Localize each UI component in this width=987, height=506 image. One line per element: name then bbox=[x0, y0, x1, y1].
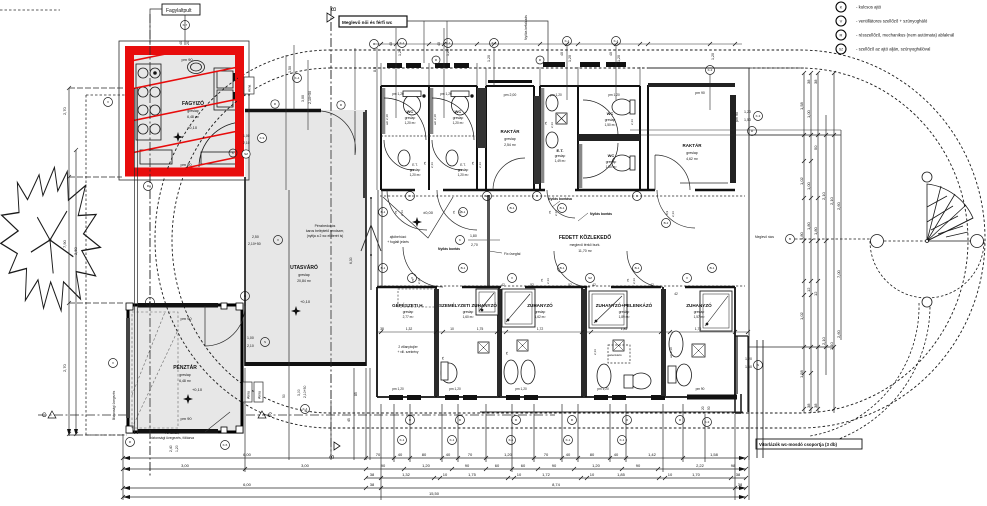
svg-text:K-4: K-4 bbox=[303, 407, 308, 411]
svg-text:1,70: 1,70 bbox=[692, 472, 701, 477]
svg-text:K: K bbox=[459, 238, 461, 242]
svg-text:pm 1,20: pm 1,20 bbox=[392, 92, 404, 96]
svg-text:greslap: greslap bbox=[555, 154, 566, 158]
svg-text:ajtóbehúzó: ajtóbehúzó bbox=[390, 235, 407, 239]
svg-text:40: 40 bbox=[446, 452, 451, 457]
svg-text:am 2,10: am 2,10 bbox=[669, 347, 673, 358]
svg-text:1,70: 1,70 bbox=[695, 327, 702, 331]
svg-text:2,13: 2,13 bbox=[417, 278, 421, 284]
svg-text:Fix üvegfal: Fix üvegfal bbox=[504, 252, 521, 256]
svg-text:pm 90: pm 90 bbox=[180, 316, 192, 321]
svg-text:50: 50 bbox=[707, 406, 711, 410]
svg-text:Fagylaltpult: Fagylaltpult bbox=[166, 8, 192, 14]
svg-text:V: V bbox=[686, 276, 688, 280]
svg-text:2,10: 2,10 bbox=[829, 341, 834, 350]
svg-text:1,20 m²: 1,20 m² bbox=[458, 173, 469, 177]
svg-text:biztonsági üvegezés, fóliázva: biztonsági üvegezés, fóliázva bbox=[150, 436, 194, 440]
svg-text:greslap: greslap bbox=[298, 273, 310, 277]
svg-text:1,00: 1,00 bbox=[806, 181, 811, 190]
svg-text:- szellőző az ajtó alján, szú: - szellőző az ajtó alján, szúnyoghálóval bbox=[856, 47, 930, 52]
svg-text:greslap: greslap bbox=[179, 373, 191, 377]
svg-text:2,10: 2,10 bbox=[247, 344, 254, 348]
svg-text:76: 76 bbox=[626, 278, 630, 282]
svg-text:pm 1,20: pm 1,20 bbox=[440, 92, 452, 96]
svg-text:S: S bbox=[757, 363, 759, 367]
svg-text:2,10: 2,10 bbox=[821, 336, 826, 345]
svg-text:2,13: 2,13 bbox=[400, 210, 404, 216]
svg-text:20: 20 bbox=[701, 406, 705, 410]
svg-text:greslap: greslap bbox=[405, 116, 416, 120]
svg-text:B: B bbox=[244, 294, 246, 298]
svg-text:E.T.: E.T. bbox=[460, 163, 466, 167]
svg-text:75: 75 bbox=[441, 356, 445, 360]
svg-text:38: 38 bbox=[806, 79, 811, 84]
svg-text:2,10: 2,10 bbox=[243, 141, 250, 145]
svg-text:K-1: K-1 bbox=[620, 438, 625, 442]
svg-text:K: K bbox=[232, 151, 234, 155]
svg-text:Akna: Akna bbox=[247, 391, 251, 399]
svg-text:(nyitja a 2 wc előterét is): (nyitja a 2 wc előterét is) bbox=[307, 234, 344, 238]
svg-text:76: 76 bbox=[452, 210, 456, 214]
svg-text:1,20: 1,20 bbox=[487, 55, 491, 62]
svg-text:ZUHANYZÓ: ZUHANYZÓ bbox=[527, 301, 553, 308]
svg-text:K-1: K-1 bbox=[509, 438, 514, 442]
svg-text:K-2: K-2 bbox=[492, 41, 497, 45]
svg-text:greslap: greslap bbox=[686, 151, 698, 155]
svg-text:±0,00: ±0,00 bbox=[423, 210, 434, 215]
svg-text:15,50: 15,50 bbox=[429, 491, 440, 496]
svg-text:10: 10 bbox=[517, 472, 522, 477]
svg-text:S: S bbox=[264, 340, 266, 344]
svg-text:V: V bbox=[636, 194, 638, 198]
svg-text:1,32: 1,32 bbox=[402, 472, 411, 477]
svg-text:R: R bbox=[840, 33, 843, 38]
svg-text:WC: WC bbox=[455, 109, 462, 114]
svg-text:K-1: K-1 bbox=[400, 41, 405, 45]
svg-text:K-1: K-1 bbox=[400, 438, 405, 442]
svg-text:2,10+50: 2,10+50 bbox=[248, 242, 261, 246]
svg-text:1,85: 1,85 bbox=[617, 472, 626, 477]
svg-text:ZUHANYZÓ: ZUHANYZÓ bbox=[686, 301, 712, 308]
svg-text:pm 1,20: pm 1,20 bbox=[392, 387, 404, 391]
svg-text:K-3: K-3 bbox=[708, 68, 713, 72]
svg-text:42: 42 bbox=[501, 283, 505, 287]
svg-text:2,10: 2,10 bbox=[821, 191, 826, 200]
svg-text:75: 75 bbox=[423, 161, 427, 165]
svg-text:50: 50 bbox=[813, 145, 818, 150]
svg-text:1,57 m²: 1,57 m² bbox=[694, 315, 705, 319]
svg-text:1,02: 1,02 bbox=[799, 176, 804, 185]
svg-text:greslap: greslap bbox=[694, 310, 705, 314]
svg-text:1,20: 1,20 bbox=[617, 55, 621, 62]
svg-text:pm 1,20: pm 1,20 bbox=[608, 93, 620, 97]
svg-text:2,50: 2,50 bbox=[252, 235, 259, 239]
svg-text:K-1: K-1 bbox=[614, 39, 619, 43]
svg-text:greslap: greslap bbox=[463, 310, 474, 314]
svg-text:E.T.: E.T. bbox=[412, 163, 418, 167]
svg-text:40: 40 bbox=[389, 42, 393, 46]
svg-text:B-1: B-1 bbox=[381, 210, 386, 214]
svg-text:2,10+50: 2,10+50 bbox=[303, 386, 307, 398]
svg-text:UTASVÁRÓ: UTASVÁRÓ bbox=[290, 263, 318, 271]
svg-text:10: 10 bbox=[443, 472, 448, 477]
svg-text:am 2,10: am 2,10 bbox=[433, 114, 437, 125]
svg-text:K-1: K-1 bbox=[566, 438, 571, 442]
svg-text:38: 38 bbox=[380, 327, 384, 331]
svg-text:10: 10 bbox=[590, 472, 595, 477]
svg-text:FEDETT KÖZLEKEDŐ: FEDETT KÖZLEKEDŐ bbox=[559, 234, 611, 241]
svg-text:40: 40 bbox=[179, 41, 183, 45]
svg-text:B: B bbox=[330, 455, 336, 459]
svg-text:45: 45 bbox=[347, 418, 351, 422]
svg-text:40: 40 bbox=[566, 452, 571, 457]
svg-text:V: V bbox=[840, 19, 843, 24]
svg-text:2,13: 2,13 bbox=[671, 211, 675, 217]
svg-text:80: 80 bbox=[590, 452, 595, 457]
svg-text:2,13: 2,13 bbox=[554, 210, 558, 216]
svg-text:karos beléptető rendszer,: karos beléptető rendszer, bbox=[306, 229, 344, 233]
svg-text:38: 38 bbox=[738, 482, 743, 487]
svg-text:greslap: greslap bbox=[535, 310, 546, 314]
svg-text:1,58: 1,58 bbox=[799, 101, 804, 110]
svg-text:K-1: K-1 bbox=[450, 438, 455, 442]
svg-text:75: 75 bbox=[471, 161, 475, 165]
svg-text:70: 70 bbox=[468, 452, 473, 457]
svg-text:40: 40 bbox=[560, 52, 564, 56]
svg-text:2,10+50: 2,10+50 bbox=[308, 91, 312, 104]
svg-text:90: 90 bbox=[381, 463, 386, 468]
svg-text:42: 42 bbox=[592, 283, 596, 287]
svg-text:1,75: 1,75 bbox=[477, 327, 484, 331]
svg-text:greslap: greslap bbox=[606, 160, 617, 164]
svg-text:2,13: 2,13 bbox=[478, 162, 482, 168]
svg-text:Meglevő rács: Meglevő rács bbox=[755, 235, 774, 239]
svg-text:am 2,10: am 2,10 bbox=[385, 114, 389, 125]
svg-text:+0,10: +0,10 bbox=[192, 387, 203, 392]
svg-text:1,58: 1,58 bbox=[799, 369, 804, 378]
svg-text:60: 60 bbox=[495, 463, 500, 468]
svg-text:1,60 m²: 1,60 m² bbox=[463, 315, 474, 319]
svg-text:1,20: 1,20 bbox=[175, 445, 179, 452]
svg-text:Biztonsági üvegezés: Biztonsági üvegezés bbox=[112, 390, 116, 420]
svg-text:PÉNZTÁR: PÉNZTÁR bbox=[173, 363, 197, 371]
svg-text:pelenkázó: pelenkázó bbox=[608, 353, 622, 357]
svg-text:2,13: 2,13 bbox=[546, 278, 550, 284]
svg-text:RAKTÁR: RAKTÁR bbox=[683, 142, 703, 148]
svg-text:+ foglalt jelzés: + foglalt jelzés bbox=[387, 240, 409, 244]
svg-text:greslap: greslap bbox=[410, 168, 421, 172]
svg-text:meglevő térkő burk.: meglevő térkő burk. bbox=[570, 243, 601, 247]
svg-text:38: 38 bbox=[813, 403, 818, 408]
svg-text:ZUHANYZÓ+PELENKÁZÓ: ZUHANYZÓ+PELENKÁZÓ bbox=[596, 301, 653, 308]
svg-text:90: 90 bbox=[552, 463, 557, 468]
svg-text:RAKTÁR: RAKTÁR bbox=[501, 128, 521, 134]
svg-text:V: V bbox=[112, 361, 114, 365]
svg-text:6,48 m²: 6,48 m² bbox=[179, 379, 192, 383]
svg-text:80: 80 bbox=[422, 452, 427, 457]
svg-text:K-1: K-1 bbox=[446, 41, 451, 45]
svg-text:1,20: 1,20 bbox=[744, 110, 751, 114]
svg-text:2,60: 2,60 bbox=[836, 201, 841, 210]
svg-text:1,50: 1,50 bbox=[288, 66, 292, 73]
svg-text:3,00: 3,00 bbox=[181, 463, 190, 468]
svg-text:B: B bbox=[789, 237, 791, 241]
svg-text:76: 76 bbox=[394, 210, 398, 214]
svg-text:1,20: 1,20 bbox=[592, 463, 601, 468]
svg-text:pm 90: pm 90 bbox=[735, 112, 739, 122]
svg-text:SZEMÉLYZETI ZUHANYZÓ: SZEMÉLYZETI ZUHANYZÓ bbox=[439, 301, 497, 308]
svg-text:Nyílás befalazás: Nyílás befalazás bbox=[524, 15, 528, 40]
svg-text:K-3: K-3 bbox=[705, 420, 710, 424]
svg-text:1,50 m²: 1,50 m² bbox=[606, 165, 617, 169]
svg-text:SZ: SZ bbox=[244, 152, 248, 156]
svg-text:38: 38 bbox=[370, 482, 375, 487]
svg-text:1,72: 1,72 bbox=[542, 472, 551, 477]
svg-text:11,70 m²: 11,70 m² bbox=[578, 249, 592, 253]
svg-text:1,50: 1,50 bbox=[745, 365, 752, 369]
svg-text:20,84 m²: 20,84 m² bbox=[297, 279, 312, 283]
svg-text:8,9: 8,9 bbox=[665, 210, 669, 215]
svg-text:2,70: 2,70 bbox=[471, 243, 478, 247]
svg-text:Fix ablak,: Fix ablak, bbox=[165, 431, 180, 435]
svg-text:1,20 m²: 1,20 m² bbox=[453, 121, 464, 125]
svg-text:greslap: greslap bbox=[619, 310, 630, 314]
svg-text:Pénzbedobós: Pénzbedobós bbox=[315, 224, 336, 228]
svg-text:8,5: 8,5 bbox=[373, 67, 377, 72]
svg-text:60: 60 bbox=[521, 463, 526, 468]
svg-text:2,10: 2,10 bbox=[829, 196, 834, 205]
svg-text:+0,10: +0,10 bbox=[300, 299, 311, 304]
svg-text:1,00: 1,00 bbox=[243, 134, 250, 138]
svg-text:1,00: 1,00 bbox=[806, 109, 811, 118]
svg-text:2,70: 2,70 bbox=[62, 363, 67, 372]
svg-text:WC: WC bbox=[608, 153, 615, 158]
svg-text:7,90: 7,90 bbox=[62, 239, 67, 248]
svg-text:pm 90: pm 90 bbox=[696, 387, 705, 391]
svg-text:40: 40 bbox=[398, 452, 403, 457]
svg-text:1,72: 1,72 bbox=[537, 327, 544, 331]
svg-text:2,13: 2,13 bbox=[632, 278, 636, 284]
svg-text:V: V bbox=[409, 194, 411, 198]
svg-text:B-1: B-1 bbox=[635, 266, 640, 270]
svg-text:76: 76 bbox=[540, 278, 544, 282]
svg-text:1,80: 1,80 bbox=[813, 226, 818, 235]
svg-text:90: 90 bbox=[636, 463, 641, 468]
svg-text:greslap: greslap bbox=[458, 168, 469, 172]
svg-text:1,02: 1,02 bbox=[799, 311, 804, 320]
svg-text:1,00: 1,00 bbox=[247, 336, 254, 340]
svg-text:1,20: 1,20 bbox=[398, 49, 402, 56]
svg-text:Nyílás bontás: Nyílás bontás bbox=[438, 247, 460, 251]
svg-text:2,70: 2,70 bbox=[62, 106, 67, 115]
svg-text:7,00: 7,00 bbox=[836, 269, 841, 278]
svg-text:4,62 m²: 4,62 m² bbox=[686, 157, 699, 161]
svg-text:pm 90: pm 90 bbox=[180, 416, 192, 421]
svg-text:greslap: greslap bbox=[504, 137, 516, 141]
svg-text:1,20: 1,20 bbox=[504, 452, 513, 457]
svg-text:1,20: 1,20 bbox=[711, 53, 715, 60]
svg-text:1,58: 1,58 bbox=[710, 452, 719, 457]
svg-text:1,85: 1,85 bbox=[621, 327, 628, 331]
svg-text:B-1: B-1 bbox=[381, 266, 386, 270]
svg-text:B-1: B-1 bbox=[510, 206, 515, 210]
svg-text:B-1: B-1 bbox=[710, 266, 715, 270]
svg-text:Nyílás bontása: Nyílás bontása bbox=[548, 197, 572, 201]
svg-text:pm 1,20: pm 1,20 bbox=[550, 93, 562, 97]
svg-text:GÉPÉSZETI H.: GÉPÉSZETI H. bbox=[392, 301, 424, 308]
svg-text:K-5: K-5 bbox=[223, 443, 228, 447]
svg-text:12: 12 bbox=[806, 287, 811, 292]
svg-text:2,13: 2,13 bbox=[593, 349, 597, 355]
svg-text:38: 38 bbox=[370, 472, 375, 477]
svg-text:6,00: 6,00 bbox=[243, 452, 252, 457]
svg-text:2,60: 2,60 bbox=[836, 329, 841, 338]
svg-text:1,42: 1,42 bbox=[648, 452, 657, 457]
svg-text:B-2: B-2 bbox=[664, 221, 669, 225]
svg-text:85: 85 bbox=[354, 392, 358, 396]
svg-text:90: 90 bbox=[465, 463, 470, 468]
svg-text:Akna: Akna bbox=[258, 391, 262, 399]
svg-text:38: 38 bbox=[813, 79, 818, 84]
svg-text:52: 52 bbox=[530, 283, 534, 287]
svg-text:6,48 m²: 6,48 m² bbox=[187, 115, 200, 119]
svg-text:40: 40 bbox=[614, 452, 619, 457]
svg-text:1,80: 1,80 bbox=[806, 221, 811, 230]
svg-text:K-9: K-9 bbox=[260, 136, 265, 140]
svg-text:2,40: 2,40 bbox=[169, 445, 173, 452]
svg-text:98: 98 bbox=[731, 463, 736, 468]
svg-text:3,00: 3,00 bbox=[297, 389, 301, 396]
svg-text:38: 38 bbox=[736, 472, 741, 477]
svg-text:C: C bbox=[268, 413, 273, 419]
svg-text:V: V bbox=[107, 100, 109, 104]
svg-text:pm 90: pm 90 bbox=[695, 91, 705, 95]
svg-text:1,49 m²: 1,49 m² bbox=[555, 159, 566, 163]
svg-text:70: 70 bbox=[376, 452, 381, 457]
svg-text:- kulcsos ajtó: - kulcsos ajtó bbox=[856, 5, 882, 10]
svg-text:V: V bbox=[511, 276, 513, 280]
svg-text:Meglevő női és férfi wc: Meglevő női és férfi wc bbox=[342, 20, 393, 25]
svg-text:pm 1,20: pm 1,20 bbox=[597, 387, 609, 391]
svg-text:75: 75 bbox=[505, 351, 509, 355]
svg-text:K-1: K-1 bbox=[565, 39, 570, 43]
svg-text:pm 90: pm 90 bbox=[181, 57, 193, 62]
svg-text:2 villanybojler: 2 villanybojler bbox=[398, 345, 418, 349]
svg-text:K-3: K-3 bbox=[756, 114, 761, 118]
svg-text:pm 1,20: pm 1,20 bbox=[515, 387, 527, 391]
svg-text:greslap: greslap bbox=[403, 310, 414, 314]
svg-text:B: B bbox=[332, 7, 338, 11]
svg-text:2,54 m²: 2,54 m² bbox=[504, 143, 517, 147]
svg-text:20: 20 bbox=[186, 41, 190, 45]
svg-text:1,20: 1,20 bbox=[446, 49, 450, 56]
svg-text:50: 50 bbox=[282, 394, 286, 398]
svg-text:40: 40 bbox=[609, 52, 613, 56]
svg-text:B-1: B-1 bbox=[461, 266, 466, 270]
svg-text:6,30: 6,30 bbox=[349, 257, 353, 264]
svg-text:1,50 m²: 1,50 m² bbox=[605, 123, 616, 127]
svg-text:1,80: 1,80 bbox=[470, 234, 477, 238]
svg-text:- ventillátoros szellőző + szú: - ventillátoros szellőző + szúnyogháló bbox=[856, 19, 928, 24]
svg-text:1,20: 1,20 bbox=[422, 463, 431, 468]
svg-text:K-4: K-4 bbox=[295, 76, 300, 80]
svg-text:76: 76 bbox=[548, 210, 552, 214]
svg-text:75: 75 bbox=[544, 121, 548, 125]
svg-text:38: 38 bbox=[806, 403, 811, 408]
svg-text:2,77 m²: 2,77 m² bbox=[403, 315, 414, 319]
svg-text:pm 2,00: pm 2,00 bbox=[504, 93, 517, 97]
svg-text:1,20: 1,20 bbox=[568, 55, 572, 62]
svg-text:40: 40 bbox=[437, 42, 441, 46]
svg-text:1,32: 1,32 bbox=[406, 327, 413, 331]
svg-text:6,00: 6,00 bbox=[243, 482, 252, 487]
svg-text:42: 42 bbox=[674, 292, 678, 296]
svg-text:C: C bbox=[42, 413, 47, 419]
svg-text:V: V bbox=[536, 194, 538, 198]
svg-text:70: 70 bbox=[544, 452, 549, 457]
svg-text:76: 76 bbox=[411, 278, 415, 282]
svg-text:8,74: 8,74 bbox=[552, 482, 561, 487]
svg-text:WC: WC bbox=[607, 111, 614, 116]
svg-text:52: 52 bbox=[568, 283, 572, 287]
svg-text:SZ: SZ bbox=[485, 194, 489, 198]
svg-text:1,75: 1,75 bbox=[468, 472, 477, 477]
svg-text:1,50: 1,50 bbox=[744, 118, 751, 122]
svg-text:+0,10: +0,10 bbox=[187, 125, 198, 130]
svg-text:SZ: SZ bbox=[839, 48, 843, 52]
svg-text:- résszellőző, mechanikus (nem: - résszellőző, mechanikus (nem autómata)… bbox=[856, 33, 954, 38]
svg-text:2,22: 2,22 bbox=[696, 463, 705, 468]
svg-text:Akna: Akna bbox=[248, 85, 252, 92]
svg-text:12: 12 bbox=[813, 291, 818, 296]
svg-text:2,13: 2,13 bbox=[550, 122, 554, 128]
svg-text:B-1: B-1 bbox=[560, 206, 565, 210]
svg-text:K-7: K-7 bbox=[183, 23, 188, 27]
svg-text:FAGYIZÓ: FAGYIZÓ bbox=[182, 99, 204, 107]
svg-text:WC: WC bbox=[407, 109, 414, 114]
svg-text:10: 10 bbox=[668, 472, 673, 477]
svg-text:SZ: SZ bbox=[588, 276, 592, 280]
svg-text:2,13: 2,13 bbox=[630, 119, 634, 125]
svg-text:greslap: greslap bbox=[605, 118, 616, 122]
svg-text:E.T.: E.T. bbox=[557, 148, 564, 153]
svg-text:1,62 m²: 1,62 m² bbox=[535, 315, 546, 319]
svg-text:Vitorlázók wc-mosdó csoportja: Vitorlázók wc-mosdó csoportja (3 db) bbox=[759, 442, 838, 447]
svg-text:B-1: B-1 bbox=[560, 266, 565, 270]
svg-text:1,89 m²: 1,89 m² bbox=[619, 315, 630, 319]
svg-text:3,00: 3,00 bbox=[301, 463, 310, 468]
svg-text:1,20 m²: 1,20 m² bbox=[405, 121, 416, 125]
svg-text:1,20: 1,20 bbox=[745, 357, 752, 361]
svg-text:42: 42 bbox=[650, 283, 654, 287]
svg-text:3,00: 3,00 bbox=[301, 95, 305, 102]
svg-text:K: K bbox=[840, 5, 843, 10]
svg-text:2,13: 2,13 bbox=[458, 210, 462, 216]
svg-text:Nyílás bontás: Nyílás bontás bbox=[590, 212, 612, 216]
svg-text:2,50: 2,50 bbox=[73, 246, 78, 255]
svg-text:10: 10 bbox=[450, 327, 454, 331]
svg-text:V: V bbox=[277, 238, 279, 242]
svg-text:+ vill. szekrény: + vill. szekrény bbox=[398, 350, 419, 354]
svg-text:2,13: 2,13 bbox=[430, 162, 434, 168]
svg-text:1,20 m²: 1,20 m² bbox=[410, 173, 421, 177]
svg-text:greslap: greslap bbox=[453, 116, 464, 120]
svg-text:pm 1,20: pm 1,20 bbox=[449, 387, 461, 391]
